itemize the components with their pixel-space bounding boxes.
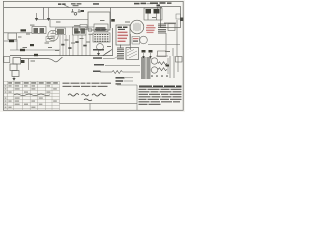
speaker label row2 xyxy=(93,56,118,59)
resistor R6 zigzag xyxy=(158,62,167,65)
trimmer capacitor cluster xyxy=(71,9,84,15)
table header text xyxy=(8,82,58,83)
table middle script entry xyxy=(14,94,50,96)
wire right riser xyxy=(166,20,177,56)
wire heater run xyxy=(21,57,63,62)
power transformer xyxy=(141,57,151,79)
ground arrow right xyxy=(47,8,50,22)
tiny value labels xyxy=(18,17,170,62)
resistor R2 xyxy=(9,40,14,42)
tube V2 small xyxy=(97,44,104,51)
wire main lower bus xyxy=(10,55,113,57)
grid cap block below tube xyxy=(132,37,140,45)
RF coil hatched xyxy=(56,28,66,35)
coil label xyxy=(93,3,99,4)
label box xyxy=(46,37,54,42)
resistor R4 xyxy=(30,44,34,46)
resistor R5 zigzag xyxy=(100,71,140,74)
wire antenna drop xyxy=(43,8,45,20)
parts table xyxy=(4,81,60,110)
antenna coil box xyxy=(32,27,46,34)
IF transformer T1 box xyxy=(144,8,162,20)
capacitor C1 xyxy=(61,44,64,46)
caption line 2 xyxy=(63,86,108,87)
table cell entries xyxy=(5,86,57,108)
IF transformer T2 box xyxy=(73,27,87,35)
switch S1 xyxy=(103,51,110,56)
capacitor C10 xyxy=(166,65,170,67)
oscillator coil box xyxy=(88,24,108,32)
wire oscillator drop xyxy=(110,8,112,29)
tube V1 xyxy=(48,30,58,40)
top-right label xyxy=(150,2,172,4)
callout label 2 xyxy=(116,80,134,82)
oscillator section box xyxy=(88,12,110,30)
speaker block xyxy=(126,48,139,60)
phono jack box xyxy=(158,51,167,57)
speaker box top right xyxy=(161,7,181,28)
wire rectifier links xyxy=(151,56,169,74)
callout label 1 xyxy=(116,77,134,79)
wire switch riser xyxy=(28,59,30,71)
choke coil xyxy=(158,24,166,33)
ground arrow bottom left xyxy=(12,77,15,81)
speaker field label xyxy=(93,49,104,51)
title script xyxy=(68,94,106,97)
wire top bus xyxy=(4,7,162,9)
terminal at right border xyxy=(180,18,184,22)
wire center drop xyxy=(112,28,114,56)
junction dots xyxy=(151,75,168,77)
resistor R1 xyxy=(21,29,27,31)
padder box xyxy=(75,25,87,34)
resistor R7 zigzag xyxy=(158,68,167,71)
ground arrow left xyxy=(35,13,38,21)
capacitor C2 xyxy=(68,47,71,49)
caption line 1 xyxy=(63,83,112,84)
antenna label xyxy=(58,3,70,7)
terminal strip xyxy=(176,57,183,63)
ground arrow g2 xyxy=(149,53,152,58)
wire left row xyxy=(4,33,60,50)
wire mid-right links xyxy=(148,45,180,57)
capacitor block xyxy=(168,24,175,31)
capacitor C4 xyxy=(83,45,86,47)
wire tube drop xyxy=(130,34,132,50)
wire stepped run xyxy=(36,20,94,28)
rectifier tube V6 xyxy=(151,67,157,73)
tube V3 xyxy=(130,20,144,34)
dial lamp label with arrow xyxy=(134,3,153,5)
output transformer xyxy=(117,45,124,59)
callout label 3 xyxy=(116,83,122,84)
notes divider xyxy=(117,85,137,110)
ground arrow g1 xyxy=(142,53,145,58)
terminal box at left border xyxy=(4,57,10,63)
notes paragraph xyxy=(139,86,182,105)
capacitor C3 xyxy=(75,41,78,43)
title block line xyxy=(60,103,138,110)
B+ label xyxy=(94,64,104,66)
wire B+ run xyxy=(105,65,140,67)
rectifier box with red ratings xyxy=(116,25,130,45)
rectifier tube V5 xyxy=(151,58,157,64)
fuse blob xyxy=(21,60,25,63)
trimmer label text xyxy=(71,3,81,6)
border frame xyxy=(3,1,183,110)
phono label xyxy=(93,71,101,73)
volume control box xyxy=(8,33,17,40)
resistor R3 xyxy=(20,49,25,51)
capacitor cluster xyxy=(142,50,153,53)
wire comb verticals xyxy=(60,35,90,56)
capacitor on bus xyxy=(34,54,38,56)
red rating text right xyxy=(146,25,156,33)
wire right risers bottom xyxy=(170,56,178,78)
switch S2 xyxy=(105,50,112,55)
tube V4 small xyxy=(140,36,148,44)
ground arrow center xyxy=(97,51,100,56)
capacitor on riser xyxy=(111,19,115,22)
title sub xyxy=(84,99,92,101)
dial assembly xyxy=(93,29,110,42)
connector dots xyxy=(157,5,161,13)
power switch assembly xyxy=(10,58,21,77)
